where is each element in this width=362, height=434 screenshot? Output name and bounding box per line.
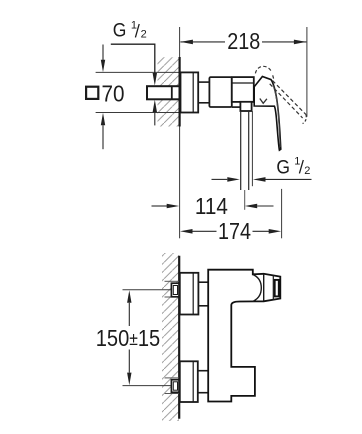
- lower escutcheon: [180, 361, 198, 402]
- upper wall union stub: [171, 283, 179, 297]
- 70 down arrow: [102, 45, 104, 61]
- dimension 174: [180, 229, 193, 234]
- arrow up to pipe bottom: [153, 100, 157, 113]
- svg-text:G: G: [276, 158, 290, 179]
- extension line at stub right edge: [251, 111, 253, 186]
- supply pipe (top view): [147, 86, 181, 99]
- dimension 70: top extension line: [96, 71, 181, 73]
- svg-text:G: G: [113, 21, 127, 42]
- wall hatching (bottom view): [162, 253, 179, 421]
- mixer body (top view): [209, 77, 231, 107]
- wall face line (bottom view): [178, 256, 180, 419]
- v detail on lever base: [260, 99, 267, 104]
- wall face line (top view): [179, 57, 181, 127]
- lever handle (solid position): [254, 77, 281, 151]
- handle cap dome arc: [253, 275, 261, 302]
- svg-text:150±15: 150±15: [96, 325, 161, 351]
- leader bracket under G1/2: [111, 44, 155, 73]
- wall extension line down to 114/174 dims: [179, 127, 181, 239]
- dashed swing end hook: [303, 115, 307, 124]
- upper neck: [198, 281, 208, 283]
- shower outlet downpipe: [240, 111, 242, 190]
- svg-text:70: 70: [102, 80, 125, 106]
- lower neck: [198, 370, 208, 372]
- lower wall union stub: [171, 380, 179, 393]
- outlet stub below head: [240, 102, 251, 111]
- dimension 218: [306, 27, 308, 117]
- wall hatching (top view): [158, 57, 180, 127]
- mixer body silhouette (bottom view): [208, 270, 280, 402]
- dashed lever swing path (outer): [273, 81, 307, 115]
- 218 extension line above wall: [179, 27, 181, 57]
- svg-text:174: 174: [218, 218, 251, 244]
- connection neck (top view): [198, 81, 209, 83]
- dimension 70: bottom extension line: [96, 112, 181, 114]
- pipe union joint line: [171, 87, 173, 100]
- upper escutcheon: [180, 273, 199, 315]
- svg-text:2: 2: [141, 29, 147, 41]
- cap end inner rect: [275, 280, 279, 297]
- dimension square 70: [86, 87, 98, 99]
- lever blade shading: [273, 86, 280, 148]
- svg-text:1: 1: [294, 156, 300, 168]
- dashed heel arc (lever raised position): [255, 66, 274, 80]
- svg-text:114: 114: [195, 193, 228, 219]
- downpipe centerline extension: [244, 190, 246, 210]
- svg-text:2: 2: [304, 165, 310, 177]
- dimension 114: [152, 205, 168, 207]
- cartridge head (top view): [232, 77, 254, 102]
- 70 up arrow: [101, 113, 105, 125]
- lower supply pipe ticks behind wall: [165, 377, 180, 379]
- cartridge cap line: [232, 82, 254, 84]
- arrow down to pipe top: [153, 73, 157, 86]
- upper supply pipe ticks behind wall: [165, 280, 180, 282]
- ledge under head: [232, 106, 241, 108]
- cap division lines: [263, 274, 265, 301]
- escutcheon (top view): [181, 72, 199, 112]
- svg-text:1: 1: [131, 20, 137, 32]
- G1/2 outlet dimension line: [212, 178, 228, 180]
- dimension 150±15: [123, 289, 171, 291]
- extension line at lever tip: [281, 189, 283, 238]
- escutcheon rim line: [192, 72, 194, 112]
- svg-text:218: 218: [227, 28, 260, 54]
- dashed lever swing path (inner): [270, 84, 303, 118]
